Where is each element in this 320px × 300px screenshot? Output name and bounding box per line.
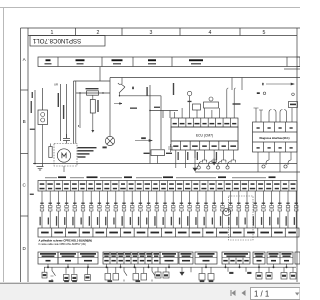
connector strip X13 (38, 181, 297, 192)
strip group headers (58, 176, 276, 178)
wire motor to bus (63, 166, 65, 172)
svg-text:B: B (23, 119, 26, 124)
terminal row X2 (38, 228, 299, 237)
label F09.10H (63, 105, 64, 119)
ground (37, 165, 44, 171)
resistor block above ECU (204, 102, 219, 108)
wire bus top link (74, 80, 111, 82)
wire labels below ECU (178, 152, 218, 160)
diagnose wires down (258, 152, 291, 172)
relay TB/R (289, 102, 298, 108)
label F0/9A (173, 83, 174, 95)
motor note text (78, 147, 97, 158)
junction dots rail (79, 92, 80, 93)
svg-text:ECU (CM7): ECU (CM7) (196, 133, 213, 137)
wire array below strip (40, 191, 298, 228)
wire stub top right corner (284, 68, 300, 70)
component table A-AB K.AB.2 (58, 252, 98, 264)
wire hooks above ECU right (227, 88, 236, 90)
viewer bottom toolbar (0, 283, 300, 300)
wire drop to lamp (109, 78, 111, 137)
relay K09A (90, 95, 98, 133)
ECU connector top pins (171, 118, 238, 127)
pump motor M2 (223, 208, 231, 216)
dashed option box (229, 196, 254, 240)
sheet frame outer border (21, 27, 301, 29)
bottom feed rail (44, 266, 296, 268)
top ruler band (28, 35, 297, 37)
capacitor C1 (63, 134, 70, 144)
wire F09 feed (146, 85, 178, 164)
relay KL above ECU (188, 101, 201, 110)
component table 4BE FAGEM (179, 252, 193, 264)
header table (38, 57, 300, 67)
wire rail to switch (121, 78, 123, 85)
wire mid link (120, 95, 162, 97)
motor protector symbols (187, 91, 213, 101)
label 7.KX7 (233, 103, 241, 104)
bus line lower (195, 171, 300, 173)
svg-text:A pillwdbin scheme CPRC-NSL1-B: A pillwdbin scheme CPRC-NSL1-BLK(M)(N) (39, 239, 92, 243)
label F09.70H (58, 93, 59, 107)
diagnose interface X10.1 (253, 122, 298, 152)
component table A-THE MAGEM (160, 252, 178, 264)
label 59A/R (130, 108, 137, 109)
header table labels (45, 59, 204, 64)
svg-text:5: 5 (263, 30, 266, 36)
resistor R-motor (49, 144, 52, 158)
wire UR drop (42, 88, 44, 110)
component table L4NGBE (222, 252, 250, 264)
sensor 12A (168, 144, 173, 152)
wire arrow mid (114, 103, 122, 105)
wire drop 8 (79, 93, 81, 128)
ECU bottom wires and contacts (176, 150, 234, 158)
svg-text:1 / 1: 1 / 1 (254, 289, 269, 298)
left ruler letters (21, 57, 29, 251)
svg-text:3: 3 (150, 30, 153, 36)
component table LTP (38, 252, 58, 264)
svg-text:K native cable node CPRC-NSL-S: K native cable node CPRC-NSL-SUPPLY (4N) (39, 243, 87, 246)
sigma symbols (257, 92, 260, 94)
svg-text:Diagnose interface(10.1): Diagnose interface(10.1) (260, 136, 290, 140)
wire switch down (119, 93, 121, 96)
sheet frame inner border (27, 28, 29, 282)
cable note text (39, 239, 92, 246)
svg-text:SSP1N0C8.7OL1: SSP1N0C8.7OL1 (32, 37, 81, 44)
label 14.9uF (31, 101, 32, 113)
wire motor bus pair (73, 81, 75, 144)
bottom wires and switches (42, 264, 296, 282)
wire id labels rotated (40, 216, 296, 226)
label E* left (30, 194, 34, 195)
title box SSP1N0C8.7OL1 (30, 36, 105, 47)
viewer page left edge (3, 8, 5, 283)
component table sensors (103, 252, 160, 264)
component table right group (253, 252, 300, 264)
ECU pin wires up (175, 90, 235, 118)
viewer page top edge (0, 7, 300, 9)
junction dot left bus (34, 163, 36, 165)
toolbar page controls (231, 288, 300, 300)
wire filter to ground (42, 125, 44, 165)
wire arrow 9A (135, 138, 152, 142)
wire left feed (34, 90, 36, 164)
component table B4L5 KB (195, 252, 217, 264)
contact pair labels (40, 203, 298, 204)
wire F09 vertical pair (60, 84, 62, 141)
label N09 (30, 129, 35, 130)
motor M1 (54, 144, 77, 167)
svg-text:UR: UR (54, 83, 58, 87)
top ruler numbers (51, 30, 266, 36)
contact pairs below ECU (176, 150, 236, 171)
lamp E12 (103, 136, 115, 148)
ECU bottom pins (171, 141, 238, 150)
relay K11 (144, 96, 173, 164)
resistor F09/T09 (76, 88, 110, 95)
label 10 (32, 92, 33, 98)
filter block N09 (38, 110, 48, 125)
wire 2 arrow right (262, 83, 294, 86)
ECU body U1 (171, 127, 238, 141)
svg-text:4: 4 (209, 30, 212, 36)
switch S5 (118, 83, 134, 93)
wires from rail right (231, 78, 233, 91)
wire top rail (110, 77, 300, 79)
diagnose wires up (254, 108, 293, 122)
bus line main (33, 163, 297, 165)
